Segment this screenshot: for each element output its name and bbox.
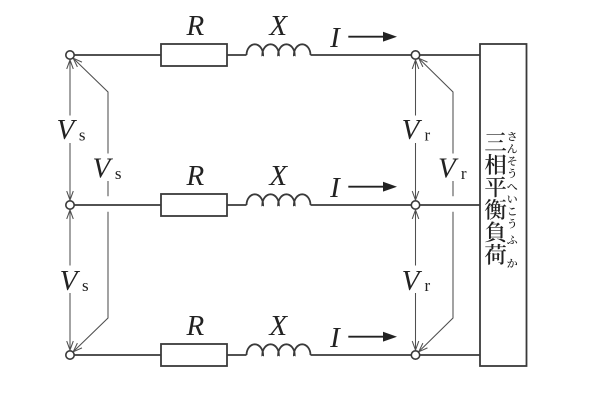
svg-text:I: I: [329, 322, 341, 354]
node R1: [411, 51, 419, 59]
current arrow I phase 1: [348, 36, 384, 38]
label Vr lower-right: [400, 266, 435, 294]
Vs line-to-line measure: [73, 58, 108, 196]
svg-text:s: s: [115, 164, 122, 183]
Vr line-to-line measure: [419, 58, 453, 196]
svg-text:R: R: [185, 160, 204, 192]
label Vs upper-left: [55, 116, 90, 144]
wire phase 1: [74, 54, 161, 56]
svg-text:R: R: [185, 310, 204, 342]
node L2: [66, 201, 74, 209]
svg-text:r: r: [424, 125, 430, 144]
Vr phase1-2 arrow: [415, 60, 417, 116]
node R3: [411, 351, 419, 359]
Vs phase1-2 arrow: [69, 60, 71, 116]
svg-text:s: s: [79, 125, 86, 144]
inductor X phase 2: [247, 194, 311, 205]
load box: [480, 44, 527, 366]
Vr phase2-3 arrow: [415, 210, 417, 266]
svg-text:I: I: [329, 172, 341, 204]
label Vr line-to-line: [436, 154, 471, 182]
resistor R phase 2: [161, 194, 227, 216]
svg-text:X: X: [268, 10, 288, 42]
node R2: [411, 201, 419, 209]
current arrow I phase 3: [348, 336, 384, 338]
svg-text:X: X: [268, 160, 288, 192]
svg-text:s: s: [82, 276, 89, 295]
inductor X phase 3: [247, 344, 311, 355]
resistor R phase 3: [161, 344, 227, 366]
label Vs line-to-line: [91, 154, 126, 182]
node L3: [66, 351, 74, 359]
node L1: [66, 51, 74, 59]
label Vr upper-right: [400, 116, 435, 144]
furigana さんそうへいこうふか: [508, 132, 515, 141]
current arrow I phase 2: [348, 186, 384, 188]
load label 三相平衡負荷: [485, 132, 506, 150]
svg-text:r: r: [424, 276, 430, 295]
Vs phase2-3 arrow: [69, 210, 71, 266]
svg-text:X: X: [268, 310, 288, 342]
inductor X phase 1: [247, 44, 311, 55]
svg-text:r: r: [461, 164, 467, 183]
svg-text:I: I: [329, 22, 341, 54]
wire phase 2: [74, 204, 161, 206]
label Vs lower-left: [55, 266, 90, 294]
wire phase 3: [74, 354, 161, 356]
svg-text:R: R: [185, 10, 204, 42]
resistor R phase 1: [161, 44, 227, 66]
